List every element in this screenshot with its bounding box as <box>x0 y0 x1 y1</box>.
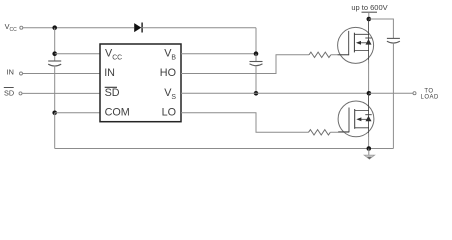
HV rail bar <box>362 11 378 13</box>
resistor R2 low-side gate <box>309 130 331 135</box>
node A junction dot <box>52 25 57 30</box>
Q1 body diode <box>366 39 372 45</box>
svg-text:up to 600V: up to 600V <box>351 3 387 12</box>
Q2 body circle <box>338 101 374 137</box>
transistor Q2 low-side MOSFET <box>338 93 374 137</box>
Q2 source stub <box>355 128 369 137</box>
junction dot ground node <box>367 146 372 151</box>
Q1 body circle <box>338 27 374 63</box>
wire Q1 source to switch node <box>368 60 370 93</box>
svg-text:SD: SD <box>105 87 120 99</box>
junction dot HV node <box>367 17 372 22</box>
svg-text:TO: TO <box>424 88 433 94</box>
wire VS pin to switch node <box>181 92 370 94</box>
wire C2 bottom lead to VS node <box>255 66 257 93</box>
node VCC label <box>5 22 17 33</box>
wire top bootstrap rail: junction to diode anode <box>55 27 135 29</box>
junction dot switch node <box>367 91 372 96</box>
terminal SD <box>19 92 22 95</box>
terminal TO LOAD <box>413 92 416 95</box>
Q1 channel bar <box>353 33 355 53</box>
wire R1 to Q1 gate <box>331 54 349 56</box>
svg-text:SD: SD <box>4 88 14 97</box>
svg-text:HO: HO <box>160 67 176 79</box>
Q2 channel bar <box>354 109 356 129</box>
Q2 drain stub <box>355 93 369 110</box>
wire switch node to TO LOAD terminal <box>369 92 413 94</box>
wire HO pin to gate resistor (up and over) <box>181 55 309 74</box>
wire VCC vertical to decoupling cap <box>54 28 56 61</box>
wire Q2 source to ground rail <box>368 133 370 149</box>
wire IN terminal to IC IN pin <box>23 73 101 75</box>
wire VB node to bootstrap cap <box>255 54 257 62</box>
svg-text:IN: IN <box>7 67 14 76</box>
wire C1 bottom lead down to COM node <box>54 66 56 113</box>
capacitor C3 bus decoupling <box>387 38 400 43</box>
node SD label <box>4 88 14 98</box>
capacitor C2 bootstrap <box>250 62 263 66</box>
diode D1 bootstrap <box>134 23 142 33</box>
wire VCC terminal to top rail junction <box>23 27 55 29</box>
Q2 inner vertical <box>368 111 370 128</box>
Q2 gate bar <box>348 108 350 133</box>
Q1 drain stub <box>354 19 368 34</box>
svg-text:LO: LO <box>162 107 176 119</box>
wire diode cathode to bootstrap column <box>142 27 256 29</box>
svg-text:IN: IN <box>104 67 115 79</box>
ground <box>364 149 374 160</box>
Q1 gate wire inside <box>338 54 350 56</box>
Q1 gate bar <box>348 31 350 55</box>
terminal IN <box>20 72 23 75</box>
wire bootstrap column down to VB <box>255 28 257 54</box>
Q1 inner vertical <box>368 34 370 50</box>
wire HV bar down to HV node <box>368 12 370 19</box>
Q1 body arrow <box>356 41 361 45</box>
wire HV node to right cap column <box>369 19 394 38</box>
op-amp U1 gate driver IC body <box>100 44 181 122</box>
svg-text:LOAD: LOAD <box>421 95 440 101</box>
wire VB pin to bootstrap node <box>181 53 256 55</box>
wire SD terminal to IC SD pin <box>22 92 100 94</box>
wire C3 bottom to ground rail <box>392 43 394 148</box>
terminal VCC <box>20 26 23 29</box>
junction dot VB node <box>254 51 259 56</box>
wire R2 to Q2 gate <box>330 131 349 133</box>
wire COM node down to ground rail <box>54 113 56 149</box>
wire LO pin to gate resistor (down and over) <box>181 113 309 133</box>
junction dot COM node <box>52 111 57 116</box>
wire COM node to IC COM pin <box>55 112 100 114</box>
Q2 gate wire inside <box>338 131 349 133</box>
pin label SD (IC) <box>105 87 120 99</box>
wire ground rail <box>55 148 394 150</box>
svg-text:COM: COM <box>105 107 130 119</box>
wire VCC node to IC VCC pin <box>55 53 100 55</box>
resistor R1 high-side gate <box>309 52 331 57</box>
capacitor C1 VCC decoupling <box>48 61 61 66</box>
Q1 source stub <box>354 51 368 64</box>
junction dot C2/VS node <box>254 91 259 96</box>
transistor Q1 high-side MOSFET <box>338 19 374 63</box>
Q2 body diode <box>366 116 372 122</box>
junction dot VCC pin node <box>52 51 57 56</box>
node TO LOAD label <box>421 88 440 100</box>
Q2 body arrow <box>356 117 361 121</box>
